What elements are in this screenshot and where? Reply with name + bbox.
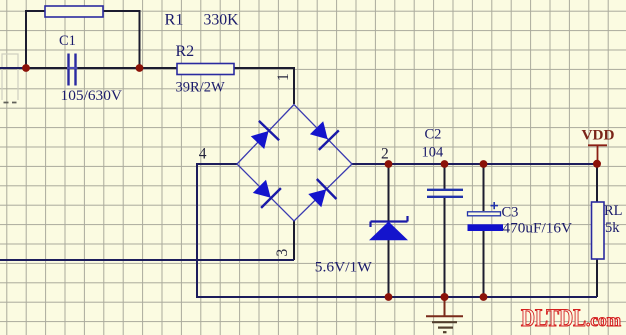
svg-text:470uF/16V: 470uF/16V	[503, 221, 573, 237]
svg-text:C2: C2	[425, 127, 442, 143]
svg-text:5.6V/1W: 5.6V/1W	[315, 260, 372, 276]
svg-text:2: 2	[381, 146, 389, 163]
svg-text:330K: 330K	[204, 10, 239, 29]
svg-text:39R/2W: 39R/2W	[176, 80, 225, 96]
svg-text:C1: C1	[59, 33, 76, 49]
svg-text:3: 3	[274, 249, 291, 257]
svg-text:104: 104	[422, 145, 445, 161]
svg-text:5k: 5k	[605, 220, 620, 236]
svg-text:VDD: VDD	[582, 128, 615, 144]
svg-text:DLTDL: DLTDL	[521, 305, 586, 332]
svg-text:R2: R2	[176, 43, 195, 60]
svg-text:1: 1	[275, 73, 292, 81]
svg-text:4: 4	[199, 146, 207, 163]
svg-text:R1: R1	[165, 10, 184, 29]
svg-text:C3: C3	[502, 205, 519, 221]
svg-text:105/630V: 105/630V	[61, 88, 123, 104]
svg-text:RL: RL	[604, 203, 623, 219]
svg-text:.com: .com	[586, 310, 621, 330]
